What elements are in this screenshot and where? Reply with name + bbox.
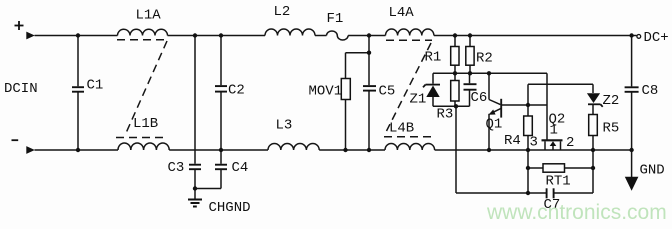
svg-text:Z2: Z2 bbox=[603, 93, 620, 109]
svg-text:DC+: DC+ bbox=[644, 30, 669, 46]
svg-text:2: 2 bbox=[566, 135, 574, 151]
svg-text:MOV1: MOV1 bbox=[309, 84, 343, 100]
svg-text:R1: R1 bbox=[425, 50, 442, 66]
svg-text:L4A: L4A bbox=[389, 5, 415, 21]
svg-text:DCIN: DCIN bbox=[4, 81, 38, 97]
svg-text:C2: C2 bbox=[228, 83, 245, 99]
svg-text:R4: R4 bbox=[504, 133, 521, 149]
svg-text:Z1: Z1 bbox=[410, 92, 427, 108]
svg-text:R5: R5 bbox=[603, 121, 620, 137]
svg-text:F1: F1 bbox=[327, 11, 344, 27]
svg-text:L2: L2 bbox=[274, 4, 291, 20]
svg-text:R3: R3 bbox=[437, 107, 454, 123]
svg-text:L1A: L1A bbox=[136, 7, 162, 23]
svg-text:www.cntronics.com: www.cntronics.com bbox=[486, 201, 667, 224]
svg-text:Q1: Q1 bbox=[486, 117, 503, 133]
svg-text:3: 3 bbox=[530, 135, 538, 151]
svg-text:C5: C5 bbox=[379, 84, 396, 100]
svg-text:R2: R2 bbox=[476, 51, 493, 67]
svg-text:C4: C4 bbox=[232, 160, 249, 176]
svg-text:C6: C6 bbox=[471, 90, 488, 106]
svg-text:CHGND: CHGND bbox=[209, 200, 251, 216]
svg-text:C8: C8 bbox=[642, 83, 659, 99]
svg-text:C1: C1 bbox=[87, 78, 104, 94]
svg-text:L4B: L4B bbox=[389, 121, 414, 137]
svg-text:C3: C3 bbox=[168, 160, 185, 176]
svg-text:1: 1 bbox=[550, 123, 558, 139]
svg-text:GND: GND bbox=[640, 163, 665, 179]
svg-text:L3: L3 bbox=[276, 118, 293, 134]
svg-text:L1B: L1B bbox=[133, 116, 158, 132]
svg-text:RT1: RT1 bbox=[546, 174, 571, 190]
